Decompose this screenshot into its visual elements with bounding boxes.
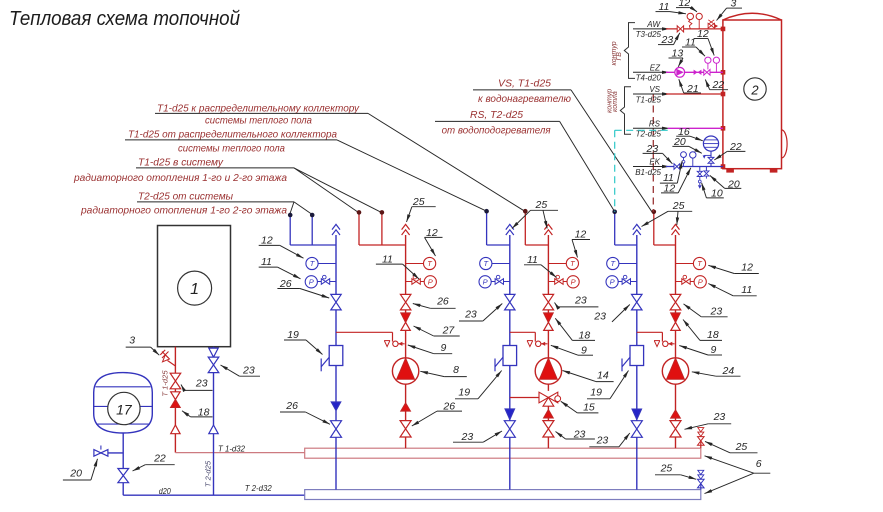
svg-text:22: 22	[153, 453, 166, 465]
svg-text:23: 23	[195, 377, 208, 389]
svg-text:от водоподогревателя: от водоподогревателя	[442, 126, 552, 137]
svg-text:Т3-d25: Т3-d25	[636, 30, 662, 39]
svg-text:18: 18	[707, 329, 719, 341]
svg-text:VS: VS	[649, 85, 660, 94]
svg-text:23: 23	[242, 365, 255, 377]
svg-text:AW: AW	[646, 20, 661, 29]
svg-text:9: 9	[441, 342, 447, 354]
svg-text:8: 8	[453, 364, 459, 376]
svg-text:1: 1	[190, 281, 199, 298]
svg-text:Тепловая схема топочной: Тепловая схема топочной	[9, 7, 240, 30]
svg-text:Т2-d25 от системы: Т2-d25 от системы	[138, 192, 233, 203]
svg-text:6: 6	[756, 458, 762, 470]
svg-text:В1-d25: В1-d25	[635, 168, 661, 177]
svg-text:23: 23	[574, 295, 587, 307]
svg-text:25: 25	[735, 441, 748, 453]
svg-text:EZ: EZ	[650, 64, 661, 73]
svg-text:23: 23	[713, 411, 726, 423]
svg-text:25: 25	[412, 196, 425, 208]
svg-text:Т1-d25 от распределительного к: Т1-d25 от распределительного коллектора	[128, 130, 337, 141]
svg-text:системы теплого пола: системы теплого пола	[178, 144, 285, 155]
svg-text:Т 1-d32: Т 1-d32	[218, 444, 246, 453]
svg-text:25: 25	[672, 200, 685, 212]
svg-text:23: 23	[596, 435, 609, 447]
svg-text:14: 14	[597, 370, 609, 382]
svg-text:18: 18	[579, 329, 591, 341]
svg-text:23: 23	[710, 306, 723, 318]
svg-text:радиаторного отопления 1-го 2-: радиаторного отопления 1-го 2-го этажа	[80, 205, 287, 216]
svg-text:20: 20	[69, 468, 82, 480]
svg-text:Т 2-d32: Т 2-d32	[245, 484, 273, 493]
svg-text:P: P	[483, 277, 488, 286]
svg-text:Т 2-d25: Т 2-d25	[204, 460, 213, 487]
svg-text:Т4-d20: Т4-d20	[636, 74, 662, 83]
svg-text:11: 11	[261, 256, 272, 268]
svg-text:EK: EK	[649, 158, 660, 167]
svg-text:Т1-d25 к распределительному ко: Т1-d25 к распределительному коллектору	[157, 103, 360, 114]
svg-text:12: 12	[741, 261, 753, 273]
svg-text:17: 17	[116, 401, 133, 417]
svg-text:2: 2	[750, 83, 759, 98]
svg-text:к водонагревателю: к водонагревателю	[478, 94, 571, 105]
svg-text:25: 25	[660, 463, 673, 475]
svg-text:22: 22	[712, 79, 725, 91]
svg-text:системы теплого пола: системы теплого пола	[205, 115, 312, 126]
svg-text:12: 12	[575, 229, 587, 241]
svg-text:19: 19	[287, 329, 299, 341]
svg-text:9: 9	[581, 344, 587, 356]
svg-text:P: P	[698, 277, 703, 286]
svg-text:25: 25	[535, 199, 548, 211]
svg-text:P: P	[571, 277, 576, 286]
svg-text:радиаторного отопления 1-го и: радиаторного отопления 1-го и 2-го этажа	[73, 173, 287, 184]
svg-text:23: 23	[464, 309, 477, 321]
svg-text:RS: RS	[649, 120, 661, 129]
svg-text:26: 26	[285, 400, 298, 412]
svg-text:19: 19	[590, 387, 602, 399]
svg-text:23: 23	[593, 311, 606, 323]
svg-text:P: P	[610, 277, 615, 286]
svg-text:26: 26	[436, 296, 449, 308]
svg-text:23: 23	[461, 431, 474, 443]
svg-text:12: 12	[261, 234, 273, 246]
svg-text:11: 11	[741, 284, 752, 296]
svg-text:27: 27	[442, 324, 456, 336]
svg-text:Т1-d25 в систему: Т1-d25 в систему	[138, 157, 224, 168]
svg-text:11: 11	[382, 253, 393, 265]
svg-text:19: 19	[458, 387, 470, 399]
svg-text:P: P	[428, 277, 433, 286]
svg-text:15: 15	[583, 402, 595, 414]
svg-text:9: 9	[711, 344, 717, 356]
svg-text:ГВ: ГВ	[616, 52, 623, 61]
svg-text:Т2-d25: Т2-d25	[636, 130, 662, 139]
svg-text:Т 1-d25: Т 1-d25	[160, 370, 169, 397]
svg-text:11: 11	[659, 1, 670, 13]
svg-text:24: 24	[722, 365, 735, 377]
svg-text:котла: котла	[612, 91, 619, 112]
svg-text:Т1-d25: Т1-d25	[636, 95, 662, 104]
svg-text:VS, Т1-d25: VS, Т1-d25	[498, 78, 551, 89]
svg-text:3: 3	[129, 334, 135, 346]
svg-text:P: P	[309, 277, 314, 286]
svg-text:d20: d20	[159, 487, 171, 496]
svg-text:RS, Т2-d25: RS, Т2-d25	[470, 110, 523, 121]
